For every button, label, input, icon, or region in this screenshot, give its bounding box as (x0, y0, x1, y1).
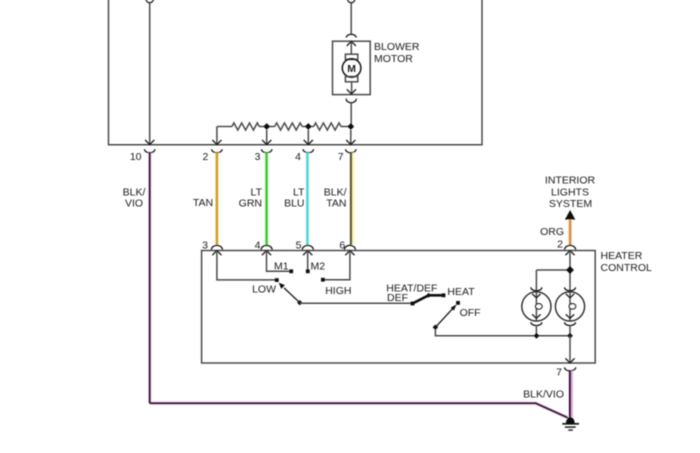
svg-text:3: 3 (202, 239, 208, 251)
svg-text:10: 10 (130, 151, 142, 163)
svg-text:HEATER: HEATER (601, 250, 643, 262)
svg-text:4: 4 (255, 239, 261, 251)
svg-text:2: 2 (202, 151, 208, 163)
svg-text:BLU: BLU (284, 197, 304, 209)
svg-text:6: 6 (339, 239, 345, 251)
svg-text:M1: M1 (274, 261, 289, 273)
svg-text:3: 3 (255, 151, 261, 163)
svg-text:MOTOR: MOTOR (374, 53, 413, 65)
svg-text:LIGHTS: LIGHTS (551, 186, 589, 198)
svg-text:VIO: VIO (125, 197, 143, 209)
svg-text:M: M (347, 63, 356, 75)
svg-text:HEAT: HEAT (447, 286, 475, 298)
svg-text:TAN: TAN (193, 197, 213, 209)
svg-text:7: 7 (556, 367, 562, 379)
svg-text:HIGH: HIGH (325, 285, 351, 297)
svg-text:7: 7 (338, 151, 344, 163)
svg-text:BLOWER: BLOWER (374, 41, 420, 53)
svg-text:INTERIOR: INTERIOR (545, 174, 596, 186)
svg-text:TAN: TAN (326, 197, 346, 209)
svg-text:CONTROL: CONTROL (601, 262, 652, 274)
svg-text:OFF: OFF (460, 307, 481, 319)
svg-text:ORG: ORG (540, 226, 564, 238)
svg-text:DEF: DEF (387, 292, 408, 304)
svg-text:2: 2 (557, 239, 563, 251)
svg-text:SYSTEM: SYSTEM (549, 198, 592, 210)
svg-text:BLK/VIO: BLK/VIO (523, 388, 564, 400)
svg-text:GRN: GRN (239, 197, 262, 209)
svg-text:5: 5 (296, 239, 302, 251)
svg-text:M2: M2 (311, 261, 326, 273)
svg-text:4: 4 (295, 151, 301, 163)
svg-text:LOW: LOW (252, 284, 276, 296)
